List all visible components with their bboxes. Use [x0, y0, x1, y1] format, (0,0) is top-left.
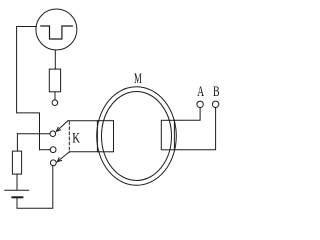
wire upper arm pivot to winding L1	[68, 120, 98, 122]
wire horizontal to contact K1	[17, 133, 50, 135]
pulse waveform symbol	[41, 26, 73, 39]
svg-text:K: K	[72, 131, 80, 147]
arrowhead lower arm	[57, 158, 61, 162]
contact terminal K3	[50, 160, 56, 166]
toroid core M outer ring	[97, 87, 177, 186]
switch arm lower	[57, 152, 69, 162]
open terminal above switch	[52, 100, 58, 106]
battery BT1 long plate	[5, 189, 29, 191]
wire winding L2 to terminal A	[174, 108, 200, 121]
wire battery to contact K3	[17, 166, 53, 209]
battery BT1 short plate	[12, 196, 22, 198]
wire R2 to open terminal	[54, 92, 56, 100]
wire winding L2 to terminal B	[174, 108, 215, 150]
svg-text:M: M	[134, 71, 142, 87]
svg-text:A: A	[197, 84, 204, 100]
wire resistor R1 to battery	[16, 174, 18, 190]
resistor R1	[12, 151, 21, 174]
winding L1 (left)	[97, 121, 113, 152]
wire lower arm pivot to winding L1	[69, 151, 97, 153]
contact terminal K1	[50, 131, 56, 137]
arrowhead upper arm	[56, 127, 60, 131]
winding L2 (right)	[161, 120, 174, 150]
wire from G1 left side down to relay input node	[17, 27, 40, 150]
pulse generator G1	[36, 9, 77, 50]
contact terminal K2	[50, 147, 56, 153]
terminal B	[212, 101, 218, 107]
resistor R2	[49, 69, 60, 92]
toroid core M inner ring	[102, 92, 172, 181]
wire stub to K2	[40, 149, 51, 151]
switch arm upper	[56, 121, 68, 132]
wire vertical to resistor R1	[16, 134, 18, 151]
wire G1 bottom to resistor R2	[54, 50, 56, 69]
svg-text:B: B	[213, 84, 220, 100]
relay actuator dashed link	[68, 122, 70, 153]
terminal A	[197, 101, 203, 107]
